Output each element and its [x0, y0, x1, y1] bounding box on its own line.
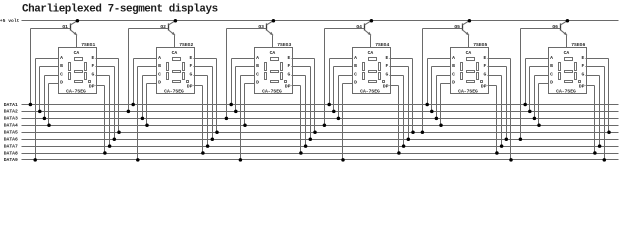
junction dot Q4 collector to +5V rail: [370, 19, 374, 23]
transistor Q3: [258, 21, 273, 36]
net DATA9 bus wire: [22, 159, 619, 161]
svg-text:A: A: [158, 55, 161, 61]
display 7SEG6 body: [549, 48, 587, 94]
svg-text:7SEG3: 7SEG3: [277, 42, 291, 48]
net DATA8 bus wire: [22, 153, 619, 155]
wire 7SEG3 pin C to DATA9: [241, 75, 255, 77]
wire Q3 base to DATA3: [227, 28, 267, 30]
wire 7SEG4 pin B to DATA2: [334, 66, 353, 68]
svg-text:G: G: [385, 71, 388, 77]
7-segment glyph of 7SEG5: [461, 58, 483, 83]
wire 7SEG2 pin G to DATA7: [194, 75, 208, 77]
wire 7SEG5 pin B to DATA2: [432, 66, 451, 68]
svg-text:A: A: [354, 55, 357, 61]
wire 7SEG3 pin B to DATA2: [236, 66, 255, 68]
svg-text:F: F: [385, 63, 388, 69]
net DATA3 bus wire: [22, 118, 619, 120]
wire 7SEG5 pin E to DATA9: [488, 58, 511, 60]
junction dot 7SEG5.E on DATA9: [509, 158, 513, 162]
wire 7SEG1 pin D to DATA4: [49, 83, 59, 85]
svg-text:D: D: [60, 80, 63, 86]
svg-text:DP: DP: [383, 83, 389, 89]
svg-text:B: B: [452, 63, 455, 69]
svg-text:E: E: [91, 55, 94, 61]
net DATA4 bus wire: [22, 125, 619, 127]
wire 7SEG4 pin F to DATA6: [390, 66, 409, 68]
svg-text:DATA8: DATA8: [4, 150, 18, 156]
wire 7SEG4 pin C to DATA3: [339, 75, 353, 77]
wire 7SEG5 pin F to DATA6: [488, 66, 507, 68]
wire 7SEG1 pin G to DATA7: [96, 75, 110, 77]
display 7SEG4 body: [353, 48, 391, 94]
net DATA6 bus wire: [22, 139, 619, 141]
wire 7SEG6 pin C to DATA3: [535, 75, 549, 77]
wire 7SEG3 pin DP to DATA8: [292, 85, 301, 87]
svg-text:F: F: [581, 63, 584, 69]
junction dot 7SEG4.C on DATA3: [337, 117, 341, 121]
junction dot Q6 base on DATA6: [519, 137, 523, 141]
junction dot 7SEG5.C on DATA3: [435, 117, 439, 121]
junction dot 7SEG2.E on DATA5: [215, 130, 219, 134]
wire Q1 base to DATA1: [31, 28, 71, 30]
transistor Q6: [552, 21, 567, 36]
wire 7SEG3 pin F to DATA6: [292, 66, 311, 68]
svg-text:CA: CA: [270, 50, 276, 56]
transistor Q4: [356, 21, 371, 36]
svg-text:B: B: [550, 63, 553, 69]
junction dot 7SEG1.DP on DATA8: [103, 151, 107, 155]
junction dot 7SEG6.F on DATA9: [603, 158, 607, 162]
svg-text:DATA5: DATA5: [4, 130, 18, 136]
junction dot Q1 base on DATA1: [29, 103, 33, 107]
wire 7SEG4 pin DP to DATA8: [390, 85, 399, 87]
wire 7SEG3 pin A to DATA1: [232, 58, 255, 60]
junction dot 7SEG6.A on DATA1: [523, 103, 527, 107]
svg-text:A: A: [256, 55, 259, 61]
svg-text:E: E: [483, 55, 486, 61]
svg-text:CA: CA: [172, 50, 178, 56]
svg-text:D: D: [256, 80, 259, 86]
svg-text:CA-7SEG: CA-7SEG: [458, 89, 478, 95]
svg-text:C: C: [158, 71, 161, 77]
wire 7SEG5 pin DP to DATA8: [488, 85, 497, 87]
svg-text:B: B: [256, 63, 259, 69]
svg-text:E: E: [581, 55, 584, 61]
net DATA5 bus wire: [22, 132, 619, 134]
wire 7SEG5 pin A to DATA1: [428, 58, 451, 60]
svg-text:CA: CA: [74, 50, 80, 56]
junction dot 7SEG1.B on DATA2: [38, 110, 42, 114]
wire 7SEG1 pin B to DATA2: [40, 66, 59, 68]
junction dot 7SEG4.B on DATA2: [332, 110, 336, 114]
net DATA1 bus wire: [22, 104, 619, 106]
svg-text:CA-7SEG: CA-7SEG: [556, 89, 576, 95]
junction dot 7SEG2.C on DATA3: [141, 117, 145, 121]
svg-text:7SEG6: 7SEG6: [571, 42, 585, 48]
junction dot 7SEG3.DP on DATA8: [299, 151, 303, 155]
svg-text:G: G: [287, 71, 290, 77]
7-segment glyph of 7SEG4: [363, 58, 385, 83]
junction dot 7SEG4.A on DATA1: [327, 103, 331, 107]
svg-text:CA: CA: [564, 50, 570, 56]
svg-text:DATA4: DATA4: [4, 123, 18, 129]
svg-text:A: A: [550, 55, 553, 61]
svg-text:C: C: [354, 71, 357, 77]
junction dot Q5 base on DATA5: [421, 130, 425, 134]
junction dot 7SEG3.A on DATA1: [229, 103, 233, 107]
wire Q6 emitter to 7SEG6 CA pin: [566, 36, 568, 48]
svg-text:7SEG2: 7SEG2: [179, 42, 193, 48]
junction dot 7SEG5.DP on DATA8: [495, 151, 499, 155]
7-segment glyph of 7SEG1: [69, 58, 91, 83]
svg-text:DATA3: DATA3: [4, 116, 18, 122]
svg-text:B: B: [354, 63, 357, 69]
transistor Q1: [62, 21, 77, 36]
wire 7SEG1 pin DP to DATA8: [96, 85, 105, 87]
svg-text:C: C: [452, 71, 455, 77]
junction dot 7SEG6.G on DATA7: [598, 144, 602, 148]
wire 7SEG4 pin G to DATA7: [390, 75, 404, 77]
wire Q2 base to DATA2: [129, 28, 169, 30]
wire 7SEG2 pin E to DATA5: [194, 58, 217, 60]
svg-text:D: D: [550, 80, 553, 86]
junction dot 7SEG3.C on DATA9: [239, 158, 243, 162]
junction dot 7SEG2.DP on DATA8: [201, 151, 205, 155]
svg-text:+5 volt: +5 volt: [0, 18, 20, 24]
svg-text:C: C: [60, 71, 63, 77]
svg-text:E: E: [385, 55, 388, 61]
svg-text:DATA2: DATA2: [4, 109, 18, 115]
display 7SEG1 body: [59, 48, 97, 94]
junction dot 7SEG3.G on DATA7: [304, 144, 308, 148]
junction dot 7SEG2.D on DATA4: [145, 124, 149, 128]
svg-text:F: F: [189, 63, 192, 69]
junction dot Q2 collector to +5V rail: [174, 19, 178, 23]
svg-text:G: G: [91, 71, 94, 77]
wire Q2 emitter to 7SEG2 CA pin: [174, 36, 176, 48]
junction dot 7SEG5.A on DATA1: [425, 103, 429, 107]
wire Q5 base to DATA5: [423, 28, 463, 30]
wire 7SEG6 pin A to DATA1: [526, 58, 549, 60]
wire 7SEG3 pin G to DATA7: [292, 75, 306, 77]
wire 7SEG1 pin C to DATA3: [45, 75, 59, 77]
junction dot 7SEG6.E on DATA5: [607, 130, 611, 134]
wire 7SEG2 pin A to DATA1: [134, 58, 157, 60]
junction dot 7SEG1.G on DATA7: [108, 144, 112, 148]
svg-text:G: G: [581, 71, 584, 77]
junction dot 7SEG3.F on DATA6: [309, 137, 313, 141]
svg-text:DP: DP: [481, 83, 487, 89]
junction dot Q3 base on DATA3: [225, 117, 229, 121]
wire 7SEG5 pin D to DATA4: [441, 83, 451, 85]
junction dot 7SEG1.D on DATA4: [47, 124, 51, 128]
wire 7SEG2 pin D to DATA4: [147, 83, 157, 85]
junction dot 7SEG1.C on DATA3: [43, 117, 47, 121]
junction dot 7SEG1.A on DATA9: [33, 158, 37, 162]
junction dot 7SEG6.DP on DATA8: [593, 151, 597, 155]
junction dot 7SEG4.DP on DATA8: [397, 151, 401, 155]
junction dot 7SEG4.G on DATA7: [402, 144, 406, 148]
svg-text:D: D: [452, 80, 455, 86]
wire 7SEG6 pin DP to DATA8: [586, 85, 595, 87]
svg-text:DP: DP: [285, 83, 291, 89]
junction dot 7SEG4.F on DATA6: [407, 137, 411, 141]
junction dot Q2 base on DATA2: [127, 110, 131, 114]
junction dot 7SEG6.B on DATA2: [528, 110, 532, 114]
junction dot 7SEG2.F on DATA6: [211, 137, 215, 141]
wire 7SEG3 pin E to DATA5: [292, 58, 315, 60]
wire Q6 base to DATA6: [521, 28, 561, 30]
wire 7SEG6 pin E to DATA5: [586, 58, 609, 60]
junction dot 7SEG4.E on DATA5: [411, 130, 415, 134]
svg-text:DATA6: DATA6: [4, 137, 18, 143]
junction dot 7SEG6.C on DATA3: [533, 117, 537, 121]
7-segment glyph of 7SEG3: [265, 58, 287, 83]
transistor Q5: [454, 21, 469, 36]
svg-text:F: F: [483, 63, 486, 69]
junction dot 7SEG5.B on DATA2: [430, 110, 434, 114]
junction dot 7SEG1.F on DATA6: [113, 137, 117, 141]
svg-text:C: C: [256, 71, 259, 77]
svg-text:G: G: [189, 71, 192, 77]
wire 7SEG1 pin F to DATA6: [96, 66, 115, 68]
net DATA2 bus wire: [22, 111, 619, 113]
wire 7SEG2 pin B to DATA9: [138, 66, 157, 68]
junction dot 7SEG4.D on DATA9: [341, 158, 345, 162]
svg-text:7SEG1: 7SEG1: [81, 42, 95, 48]
svg-text:DATA7: DATA7: [4, 143, 18, 149]
wire 7SEG6 pin D to DATA4: [539, 83, 549, 85]
svg-text:CA: CA: [368, 50, 374, 56]
7-segment glyph of 7SEG6: [559, 58, 581, 83]
svg-text:CA-7SEG: CA-7SEG: [360, 89, 380, 95]
junction dot 7SEG1.E on DATA5: [117, 130, 121, 134]
junction dot 7SEG6.D on DATA4: [537, 124, 541, 128]
svg-text:DP: DP: [89, 83, 95, 89]
transistor Q2: [160, 21, 175, 36]
wire 7SEG4 pin E to DATA5: [390, 58, 413, 60]
junction dot 7SEG3.E on DATA5: [313, 130, 317, 134]
svg-text:A: A: [60, 55, 63, 61]
wire Q3 emitter to 7SEG3 CA pin: [272, 36, 274, 48]
junction dot Q3 collector to +5V rail: [272, 19, 276, 23]
svg-text:DATA1: DATA1: [4, 102, 18, 108]
junction dot 7SEG2.B on DATA9: [136, 158, 140, 162]
junction dot 7SEG5.G on DATA7: [500, 144, 504, 148]
svg-text:7SEG5: 7SEG5: [473, 42, 487, 48]
display 7SEG2 body: [157, 48, 195, 94]
7-segment glyph of 7SEG2: [167, 58, 189, 83]
junction dot 7SEG5.D on DATA4: [439, 124, 443, 128]
svg-text:CA-7SEG: CA-7SEG: [66, 89, 86, 95]
display 7SEG3 body: [255, 48, 293, 94]
svg-text:CA-7SEG: CA-7SEG: [164, 89, 184, 95]
wire 7SEG1 pin A to DATA9: [36, 58, 59, 60]
svg-text:D: D: [354, 80, 357, 86]
wire 7SEG4 pin A to DATA1: [330, 58, 353, 60]
svg-text:F: F: [91, 63, 94, 69]
junction dot 7SEG2.A on DATA1: [131, 103, 135, 107]
junction dot 7SEG3.B on DATA2: [234, 110, 238, 114]
display 7SEG5 body: [451, 48, 489, 94]
wire 7SEG5 pin C to DATA3: [437, 75, 451, 77]
junction dot Q4 base on DATA4: [323, 124, 327, 128]
wire 7SEG6 pin F to DATA9: [586, 66, 605, 68]
wire 7SEG4 pin D to DATA9: [343, 83, 353, 85]
wire 7SEG3 pin D to DATA4: [245, 83, 255, 85]
wire 7SEG6 pin G to DATA7: [586, 75, 600, 77]
svg-text:D: D: [158, 80, 161, 86]
wire 7SEG2 pin DP to DATA8: [194, 85, 203, 87]
wire Q4 base to DATA4: [325, 28, 365, 30]
svg-text:CA-7SEG: CA-7SEG: [262, 89, 282, 95]
svg-text:B: B: [158, 63, 161, 69]
net DATA7 bus wire: [22, 146, 619, 148]
svg-text:E: E: [189, 55, 192, 61]
wire 7SEG6 pin B to DATA2: [530, 66, 549, 68]
junction dot 7SEG3.D on DATA4: [243, 124, 247, 128]
wire 7SEG2 pin F to DATA6: [194, 66, 213, 68]
svg-text:CA: CA: [466, 50, 472, 56]
svg-text:B: B: [60, 63, 63, 69]
svg-text:E: E: [287, 55, 290, 61]
svg-text:DATA9: DATA9: [4, 157, 18, 163]
junction dot Q6 collector to +5V rail: [566, 19, 570, 23]
svg-text:C: C: [550, 71, 553, 77]
wire Q5 emitter to 7SEG5 CA pin: [468, 36, 470, 48]
wire 7SEG5 pin G to DATA7: [488, 75, 502, 77]
svg-text:A: A: [452, 55, 455, 61]
svg-text:DP: DP: [579, 83, 585, 89]
svg-text:7SEG4: 7SEG4: [375, 42, 389, 48]
wire Q1 emitter to 7SEG1 CA pin: [76, 36, 78, 48]
+5 volt supply rail: [22, 20, 619, 22]
wire 7SEG2 pin C to DATA3: [143, 75, 157, 77]
junction dot 7SEG2.G on DATA7: [206, 144, 210, 148]
svg-text:Charlieplexed 7-segment displa: Charlieplexed 7-segment displays: [22, 3, 218, 15]
wire Q4 emitter to 7SEG4 CA pin: [370, 36, 372, 48]
svg-text:F: F: [287, 63, 290, 69]
svg-text:G: G: [483, 71, 486, 77]
junction dot Q5 collector to +5V rail: [468, 19, 472, 23]
junction dot Q1 collector to +5V rail: [76, 19, 80, 23]
junction dot 7SEG5.F on DATA6: [505, 137, 509, 141]
wire 7SEG1 pin E to DATA5: [96, 58, 119, 60]
svg-text:DP: DP: [187, 83, 193, 89]
